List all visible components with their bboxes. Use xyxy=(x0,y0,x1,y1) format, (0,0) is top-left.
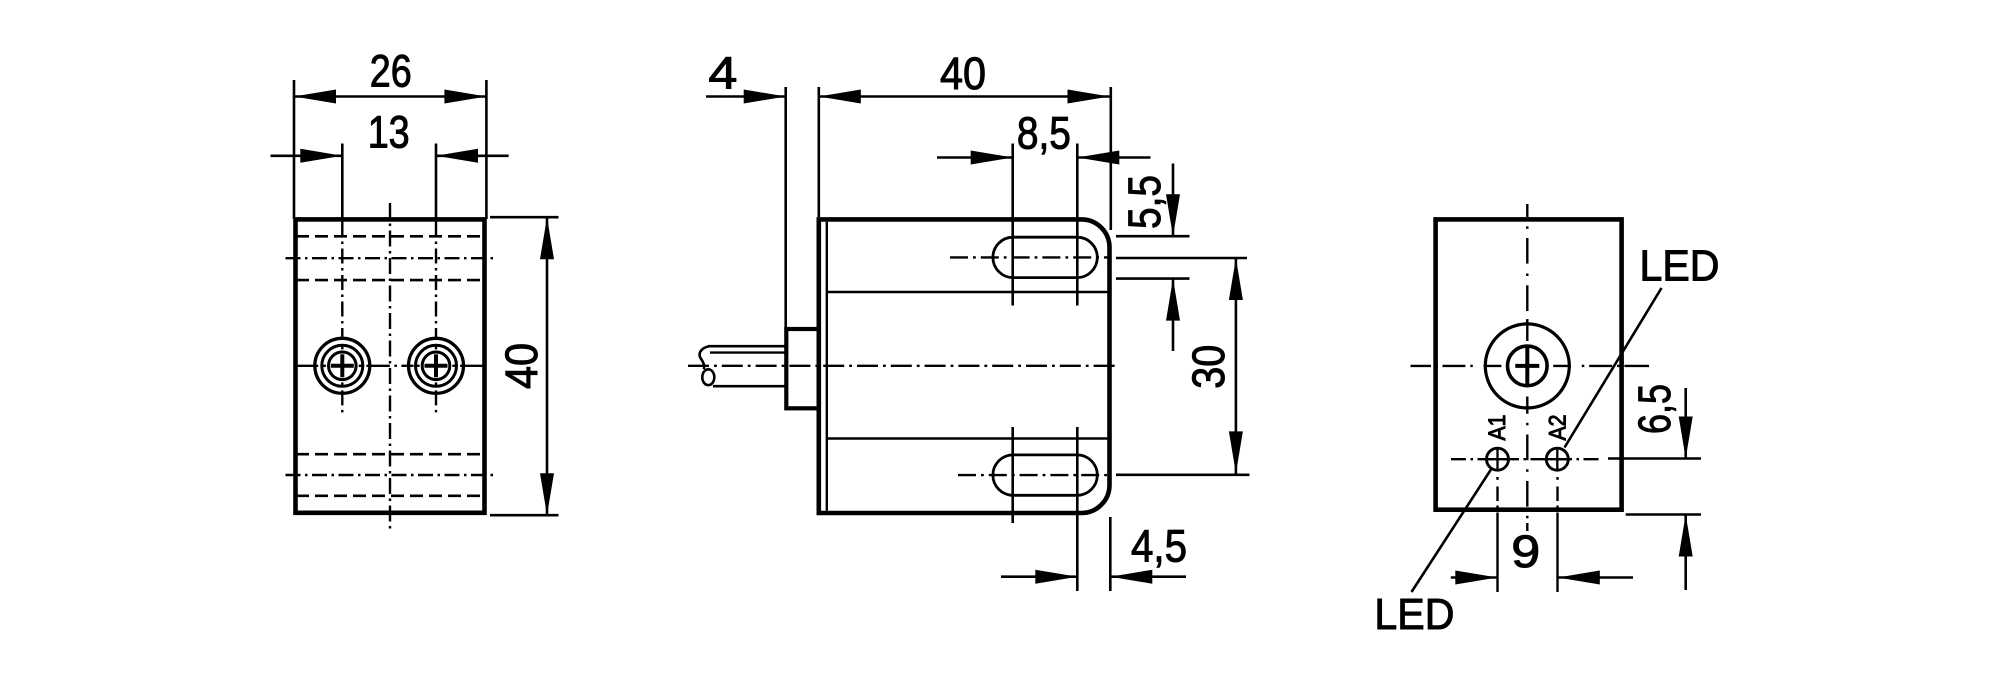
dimension 8,5 text xyxy=(1017,108,1071,159)
svg-text:40: 40 xyxy=(940,48,986,99)
dimension 9 line and arrows xyxy=(1451,571,1633,585)
slot top xyxy=(993,237,1097,277)
dimension 13 text xyxy=(368,107,410,158)
LED centerline horizontal xyxy=(1451,458,1600,460)
dimension 9 extension lines xyxy=(1498,477,1558,592)
centerline hole left xyxy=(341,222,343,412)
label A2 xyxy=(1544,415,1571,441)
dimension 13 extension lines xyxy=(342,144,436,223)
slot bottom centerline xyxy=(958,474,1110,476)
hidden slot edge bottom lower xyxy=(296,494,484,497)
centerline top slot xyxy=(286,257,496,259)
LED leader bottom xyxy=(1412,469,1492,593)
svg-text:A2: A2 xyxy=(1544,415,1571,441)
dimension 4 text xyxy=(708,48,737,99)
dimension 40 front line and arrows xyxy=(540,217,554,515)
dimension 40 side extension line right xyxy=(1110,87,1113,230)
LED leader top xyxy=(1565,288,1662,448)
svg-text:5,5: 5,5 xyxy=(1119,175,1170,229)
dimension 40 side line and arrows xyxy=(819,90,1110,104)
mounting hole left center cross xyxy=(331,354,354,377)
dimension 13 line and arrows xyxy=(271,149,509,163)
dimension 4 extension line xyxy=(786,87,819,329)
body outline top view xyxy=(1436,219,1622,509)
dimension 26 extension lines xyxy=(294,80,486,219)
inner edge line left xyxy=(826,222,828,511)
body outline front view xyxy=(296,219,485,512)
label A1 xyxy=(1484,415,1511,441)
hidden slot edge top upper xyxy=(296,235,484,238)
centerline hole right xyxy=(435,222,437,412)
horizontal centerline through holes xyxy=(297,365,483,367)
dimension 8,5 line and arrows xyxy=(937,151,1151,165)
LED label top xyxy=(1640,243,1720,291)
dimension 5,5 extension lines xyxy=(1116,236,1190,278)
dimension 6,5 extension lines xyxy=(1608,459,1701,515)
svg-text:30: 30 xyxy=(1183,345,1234,389)
body outline side view xyxy=(819,219,1110,513)
slot top centerline xyxy=(950,256,1110,258)
slot bottom xyxy=(993,455,1097,495)
horizontal centerline sensing face xyxy=(1411,365,1650,367)
main axis centerline xyxy=(688,365,1118,367)
dimension 4,5 text xyxy=(1131,521,1187,572)
cable xyxy=(700,346,786,386)
dimension 40 front text xyxy=(496,343,547,389)
dimension 26 line and arrows xyxy=(294,90,486,104)
inner edge line lower xyxy=(827,437,1109,439)
sensing face circles xyxy=(1485,324,1569,408)
dimension 4,5 line and arrows xyxy=(1001,570,1186,584)
svg-text:LED: LED xyxy=(1640,243,1720,291)
LED A2 circle xyxy=(1546,448,1568,470)
dimension 30 extension lines xyxy=(1116,258,1250,475)
svg-text:LED: LED xyxy=(1374,591,1454,639)
cable gland xyxy=(786,329,819,408)
dimension 5,5 text xyxy=(1119,175,1170,229)
dimension 30 text xyxy=(1183,345,1234,389)
mounting hole left rings xyxy=(315,338,370,393)
svg-text:40: 40 xyxy=(496,343,547,389)
slot bottom cap center lines xyxy=(1013,427,1078,591)
svg-text:4: 4 xyxy=(708,48,737,99)
svg-text:9: 9 xyxy=(1511,526,1540,577)
hidden slot edge top lower xyxy=(296,279,484,282)
dimension 26 text xyxy=(370,46,412,97)
mounting hole right rings xyxy=(409,338,464,393)
vertical centerline front view xyxy=(389,203,391,531)
vertical centerline top view xyxy=(1526,204,1528,531)
dimension 40 side text xyxy=(940,48,986,99)
centerline bottom slot xyxy=(286,474,496,476)
svg-text:6,5: 6,5 xyxy=(1629,384,1680,434)
hidden slot edge bottom upper xyxy=(296,453,484,456)
dimension 9 text xyxy=(1511,526,1540,577)
dimension 30 line and arrows xyxy=(1229,258,1243,475)
LED label bottom xyxy=(1374,591,1454,639)
LED A1 circle xyxy=(1487,448,1509,470)
dimension 5,5 arrows xyxy=(1166,164,1180,352)
svg-text:8,5: 8,5 xyxy=(1017,108,1071,159)
dimension 40 front extension lines xyxy=(490,217,559,515)
svg-text:26: 26 xyxy=(370,46,412,97)
dimension 6,5 arrows xyxy=(1679,388,1693,590)
dimension 4,5 extension lines xyxy=(1109,517,1112,591)
svg-text:13: 13 xyxy=(368,107,410,158)
slot top cap center lines xyxy=(1013,144,1078,306)
mounting hole right center cross xyxy=(425,354,448,377)
dimension 6,5 text xyxy=(1629,384,1680,434)
dimension 4 line and arrow xyxy=(706,90,786,104)
sensing face center cross xyxy=(1515,345,1539,386)
inner edge line upper xyxy=(827,291,1109,293)
svg-text:4,5: 4,5 xyxy=(1131,521,1187,572)
svg-text:A1: A1 xyxy=(1484,415,1511,441)
